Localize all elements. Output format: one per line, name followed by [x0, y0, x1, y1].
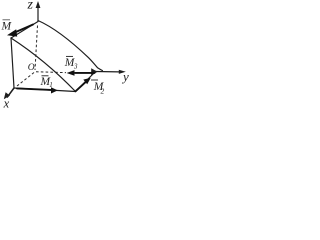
svg-text:O: O: [28, 63, 35, 73]
svg-text:y: y: [121, 69, 129, 84]
svg-text:1: 1: [49, 81, 53, 89]
svg-text:z: z: [27, 0, 34, 13]
svg-text:3: 3: [73, 63, 78, 71]
svg-text:M: M: [1, 21, 13, 33]
svg-text:2: 2: [101, 87, 105, 96]
svg-text:x: x: [3, 97, 10, 111]
